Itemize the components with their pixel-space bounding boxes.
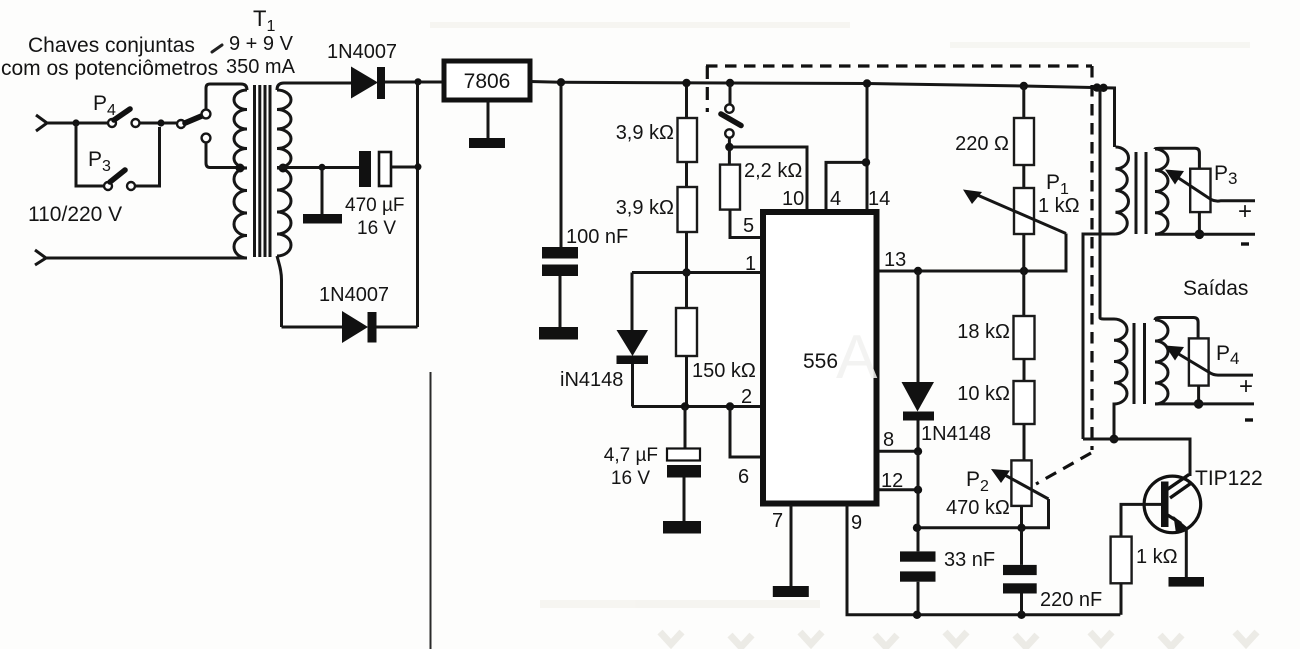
- wire P3 to node: [135, 127, 160, 186]
- wire R5 to P1: [1022, 165, 1025, 188]
- potentiometer P4: [1189, 338, 1209, 385]
- svg-text:1N4007: 1N4007: [319, 284, 389, 306]
- node below switch: [725, 143, 733, 151]
- svg-text:+: +: [1238, 198, 1252, 225]
- svg-text:350 mA: 350 mA: [226, 56, 296, 78]
- node pin12: [914, 486, 922, 494]
- wire pin 13: [877, 234, 1066, 272]
- wire pin 14: [866, 84, 869, 212]
- transformer T2 primary winding: [1116, 147, 1129, 234]
- svg-text:1 kΩ: 1 kΩ: [1136, 546, 1178, 568]
- transformer T3 secondary winding: [1155, 320, 1168, 404]
- svg-text:470 µF: 470 µF: [345, 195, 405, 216]
- node pin8: [914, 447, 922, 455]
- wire pin 8: [877, 450, 918, 453]
- svg-text:220 nF: 220 nF: [1040, 589, 1102, 611]
- svg-text:7806: 7806: [464, 70, 511, 93]
- capacitor C1 470uF plates: [391, 166, 418, 169]
- svg-text:470 kΩ: 470 kΩ: [946, 497, 1010, 519]
- transformer T1 secondary winding: [277, 90, 291, 256]
- svg-text:3,9 kΩ: 3,9 kΩ: [616, 197, 674, 219]
- regulator U2 7806: [444, 61, 530, 100]
- wire rail corner to output T2 primary: [1104, 88, 1115, 147]
- wire pin 6 stub: [730, 407, 762, 458]
- wire pin 7 ground: [790, 505, 793, 586]
- wire T2 primary bottom: [1083, 234, 1116, 439]
- wire primary lower terminal to tap: [206, 142, 237, 167]
- wire pin 5: [730, 210, 762, 238]
- svg-text:18 kΩ: 18 kΩ: [957, 321, 1010, 343]
- wire bottom rail: [917, 613, 1120, 616]
- node mid rail right: [415, 163, 422, 170]
- ground mid rail: [321, 167, 324, 214]
- pen tick mark: [212, 45, 222, 52]
- svg-text:6: 6: [738, 466, 749, 488]
- wire pin 10: [729, 147, 807, 211]
- wire D1 to node: [385, 81, 444, 84]
- wire collector feed: [1083, 439, 1190, 476]
- svg-text:556: 556: [803, 350, 838, 373]
- svg-text:iN4148: iN4148: [560, 369, 623, 391]
- svg-text:8: 8: [883, 429, 894, 451]
- svg-text:100 nF: 100 nF: [566, 226, 628, 248]
- diode D2 1N4007 bottom: [342, 311, 368, 343]
- capacitor C4 33nF: [900, 551, 936, 561]
- dashed mech link vertical right: [1090, 66, 1093, 450]
- P1 wiper arrow: [975, 194, 1066, 234]
- capacitor C3 4.7uF: [684, 407, 687, 449]
- ground C2: [539, 327, 578, 340]
- wire T3 secondary top to P4: [1155, 318, 1198, 339]
- svg-text:TIP122: TIP122: [1195, 467, 1263, 490]
- wire primary bottom corner: [238, 257, 244, 260]
- switch S1 (on P2): [725, 104, 733, 112]
- svg-text:7: 7: [772, 510, 783, 532]
- wire input top: [47, 122, 108, 125]
- svg-text:4: 4: [830, 188, 841, 210]
- T1 core: [253, 85, 256, 257]
- resistor R4 2.2k: [728, 147, 731, 165]
- svg-text:9: 9: [851, 512, 862, 534]
- wire primary top terminal: [206, 84, 247, 110]
- node pin13 diode: [914, 267, 922, 275]
- svg-text:A: A: [836, 323, 878, 392]
- P2 wiper arrow: [1003, 474, 1049, 499]
- input arrow top: [36, 115, 47, 131]
- node bottom rail 220nF: [1017, 611, 1025, 619]
- wire secondary bottom down: [277, 256, 282, 327]
- resistor R1 3.9k: [685, 83, 688, 118]
- T3 core: [1133, 323, 1136, 404]
- wire P4 to node: [140, 122, 178, 125]
- svg-text:1 kΩ: 1 kΩ: [1038, 195, 1080, 217]
- node T1 secondary tap: [279, 164, 288, 173]
- T2 core: [1135, 152, 1138, 234]
- potentiometer P1: [1014, 188, 1034, 234]
- dashed mech link horizontal: [706, 64, 1092, 67]
- node wiper line left: [913, 524, 921, 532]
- svg-text:1N4007: 1N4007: [327, 41, 397, 63]
- svg-text:5: 5: [743, 215, 754, 237]
- minus label out1: [1241, 242, 1249, 245]
- P3 wiper / + output line: [1177, 177, 1255, 201]
- svg-text:14: 14: [868, 188, 890, 210]
- node pin1: [682, 268, 690, 276]
- wire 7806 output rail: [530, 82, 1104, 88]
- svg-text:3,9 kΩ: 3,9 kΩ: [616, 122, 674, 144]
- wire pin 1: [632, 271, 762, 274]
- minus label out2: [1245, 418, 1253, 421]
- wire P3 branch left: [76, 123, 104, 186]
- node rail at switch: [726, 79, 734, 87]
- svg-text:16 V: 16 V: [357, 218, 396, 239]
- wire secondary tap (mid rail): [277, 166, 359, 169]
- wire bottom loop: [282, 326, 343, 329]
- wire long vertical to T3 primary: [1100, 88, 1114, 319]
- primary tap terminal upper: [202, 110, 211, 119]
- node P2 bottom: [1017, 524, 1025, 532]
- wire P2 wiper to bottom: [917, 499, 1049, 528]
- wire pin 9: [847, 505, 917, 615]
- IC U1 556: [763, 212, 877, 504]
- selector switch at transformer: [177, 120, 185, 128]
- wire switch to node: [728, 138, 731, 147]
- svg-text:13: 13: [884, 249, 906, 271]
- svg-text:220 Ω: 220 Ω: [955, 133, 1009, 155]
- node mid rail left: [319, 164, 326, 171]
- svg-text:12: 12: [881, 470, 903, 492]
- resistor R2 3.9k: [678, 187, 698, 232]
- wire R6-R7: [1023, 359, 1026, 381]
- P4 wiper / + output line: [1177, 353, 1253, 375]
- wire P3 bottom stem: [1198, 212, 1201, 234]
- node pin13 P1: [1020, 267, 1028, 275]
- transistor Q1 TIP122: [1144, 476, 1201, 533]
- svg-text:16 V: 16 V: [611, 468, 650, 489]
- transformer T2 secondary winding: [1155, 149, 1168, 234]
- node input top: [72, 119, 79, 126]
- diode D3 iN4148: [631, 273, 634, 331]
- ground C3: [663, 521, 701, 534]
- capacitor C2 100nF: [560, 82, 563, 247]
- wire out2 minus line: [1155, 402, 1254, 405]
- svg-text:2,2 kΩ: 2,2 kΩ: [744, 160, 802, 182]
- input arrow bottom: [35, 250, 46, 265]
- svg-text:2: 2: [741, 386, 752, 408]
- potentiometer P2: [1011, 460, 1031, 506]
- transformer T1 primary winding: [234, 90, 247, 258]
- svg-text:com os potenciômetros: com os potenciômetros: [1, 57, 218, 80]
- diode D1 1N4007 top: [351, 67, 378, 99]
- node rail right 2: [1099, 84, 1107, 92]
- wire R1-R2: [685, 162, 688, 187]
- svg-text:33 nF: 33 nF: [944, 549, 995, 571]
- node pin4 branch: [862, 158, 870, 166]
- primary tap terminal lower: [202, 134, 211, 143]
- node rectifier top: [414, 78, 421, 85]
- node collector feed: [1110, 435, 1119, 444]
- node mid top: [157, 119, 164, 126]
- wire emitter to ground: [1185, 529, 1188, 578]
- wire out1 minus line: [1155, 233, 1255, 236]
- svg-text:150 kΩ: 150 kΩ: [692, 360, 756, 382]
- node pin2 left: [681, 402, 689, 410]
- svg-text:4,7 µF: 4,7 µF: [604, 445, 658, 466]
- wire D2 to node: [377, 326, 418, 329]
- ground Q1 emitter: [1169, 577, 1205, 587]
- switch P4: [108, 119, 116, 127]
- svg-text:1N4148: 1N4148: [921, 423, 991, 445]
- node out2 minus: [1194, 399, 1204, 409]
- diode D4 1N4148: [917, 271, 920, 382]
- svg-text:1: 1: [745, 253, 756, 275]
- wire secondary top to rail: [277, 83, 351, 90]
- resistor R6 18k: [1022, 271, 1025, 316]
- dashed mech link diagonal to P2: [1036, 453, 1091, 484]
- potentiometer P3: [1190, 169, 1210, 212]
- svg-text:10: 10: [782, 188, 804, 210]
- node out1 minus: [1195, 230, 1205, 240]
- resistor R7 10k: [1014, 381, 1035, 424]
- svg-text:110/220 V: 110/220 V: [28, 203, 122, 226]
- wire input bottom to primary: [46, 257, 238, 260]
- wire T2 secondary top to P3: [1155, 148, 1199, 168]
- wire rail to switch: [729, 83, 732, 105]
- node pin2 right: [726, 402, 734, 410]
- wire rectifier node vertical: [416, 82, 419, 327]
- svg-text:10 kΩ: 10 kΩ: [957, 383, 1010, 405]
- svg-text:Chaves conjuntas: Chaves conjuntas: [28, 34, 195, 57]
- faint scan artifacts: [430, 22, 1257, 647]
- wire P4 bottom stem: [1197, 386, 1200, 404]
- svg-text:+: +: [1239, 373, 1253, 400]
- transformer T3 primary winding: [1114, 319, 1127, 439]
- switch P3: [104, 182, 112, 190]
- capacitor C5 220nF: [1020, 528, 1023, 565]
- wire node vertical to 33nF: [917, 451, 920, 551]
- node T1 primary tap: [236, 164, 245, 173]
- wire pin 4: [826, 162, 867, 211]
- wire pin 12: [877, 488, 918, 491]
- svg-text:9 + 9 V: 9 + 9 V: [229, 33, 294, 55]
- svg-text:Saídas: Saídas: [1183, 277, 1248, 300]
- resistor R8 1k: [1111, 537, 1132, 584]
- wire pin 2: [632, 405, 762, 408]
- wire base: [1121, 504, 1161, 536]
- wire R8 bottom to rail: [1120, 583, 1123, 615]
- wire R7 to P2: [1023, 424, 1026, 460]
- wire R2 to node1: [685, 232, 688, 273]
- resistor R3 150k: [685, 273, 688, 309]
- wire P2 bottom stem: [1020, 506, 1023, 528]
- wire P1 bottom: [1022, 234, 1025, 271]
- ground 7806: [487, 100, 490, 138]
- page fold line: [430, 372, 432, 649]
- node rail right 1: [1093, 83, 1101, 91]
- node bottom rail left: [913, 611, 921, 619]
- dashed mech link stub at switch: [706, 66, 709, 112]
- resistor R5 220R: [1020, 82, 1028, 90]
